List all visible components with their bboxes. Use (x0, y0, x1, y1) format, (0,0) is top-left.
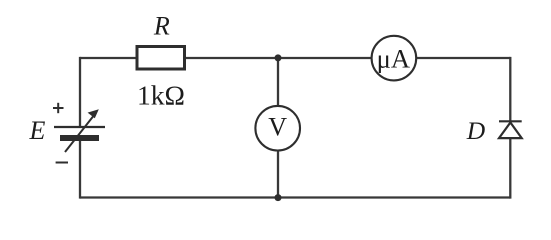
wire: bottom horizontal return (80, 196, 510, 198)
svg-text:1kΩ: 1kΩ (137, 80, 185, 111)
diode D: cathode bar (499, 120, 522, 122)
label D (466, 116, 486, 145)
svg-text:μA: μA (377, 44, 410, 74)
wire: left vertical above battery (79, 57, 81, 128)
wire: middle vertical branch for voltmeter (277, 58, 279, 198)
svg-text:D: D (466, 116, 486, 145)
variable source arrow (65, 109, 99, 152)
label 1kΩ (137, 80, 185, 111)
svg-text:V: V (268, 112, 287, 141)
voltmeter V (255, 106, 300, 151)
wire: top horizontal from E to diode branch (80, 57, 510, 59)
voltage source E: top thin plate (54, 126, 105, 128)
svg-text:R: R (153, 11, 170, 40)
microammeter µA (372, 36, 417, 81)
label E (29, 116, 46, 145)
voltage source E: bottom thick plate (60, 135, 99, 141)
resistor R (137, 47, 185, 70)
plus sign (53, 103, 64, 113)
wire: left vertical below battery (79, 136, 81, 199)
label R (153, 11, 170, 40)
wire: right vertical through diode (509, 57, 511, 199)
diode D: triangle (499, 123, 522, 139)
minus sign (56, 162, 68, 164)
node: bottom junction (275, 194, 282, 201)
node: top junction (275, 54, 282, 61)
svg-text:E: E (29, 116, 46, 145)
